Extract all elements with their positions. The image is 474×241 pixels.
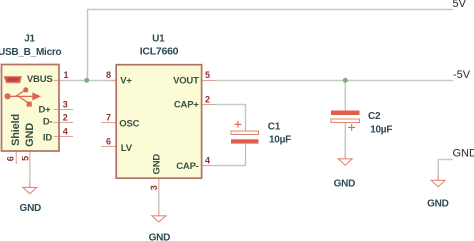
- svg-text:LV: LV: [121, 143, 133, 154]
- svg-text:4: 4: [205, 156, 210, 166]
- svg-text:V+: V+: [120, 75, 132, 86]
- svg-text:VBUS: VBUS: [27, 74, 53, 85]
- svg-text:ID: ID: [43, 133, 52, 144]
- svg-text:10µF: 10µF: [269, 135, 291, 146]
- svg-text:J1: J1: [24, 34, 35, 45]
- svg-text:2: 2: [205, 95, 210, 105]
- svg-text:Shield: Shield: [10, 114, 22, 146]
- svg-text:D+: D+: [38, 104, 51, 115]
- svg-text:D-: D-: [43, 116, 53, 127]
- svg-text:10µF: 10µF: [370, 125, 392, 136]
- svg-text:GND: GND: [24, 123, 36, 147]
- svg-text:CAP+: CAP+: [174, 100, 199, 111]
- svg-text:GND: GND: [427, 198, 449, 209]
- svg-text:2: 2: [63, 113, 68, 123]
- svg-text:ICL7660: ICL7660: [140, 46, 179, 58]
- svg-text:C2: C2: [368, 111, 381, 122]
- svg-text:GND: GND: [334, 178, 356, 189]
- svg-text:C1: C1: [268, 121, 281, 132]
- svg-text:5: 5: [20, 156, 30, 161]
- svg-text:USB_B_Micro: USB_B_Micro: [0, 47, 62, 58]
- svg-text:3: 3: [63, 100, 68, 110]
- svg-text:6: 6: [106, 137, 111, 147]
- svg-text:3: 3: [149, 185, 159, 190]
- svg-text:8: 8: [106, 70, 111, 80]
- svg-text:6: 6: [5, 156, 15, 161]
- svg-text:OSC: OSC: [119, 118, 139, 129]
- svg-text:U1: U1: [152, 34, 165, 45]
- svg-text:5: 5: [205, 70, 210, 80]
- svg-text:GND: GND: [20, 203, 42, 214]
- svg-text:CAP-: CAP-: [176, 161, 198, 172]
- svg-text:GND: GND: [149, 233, 171, 241]
- svg-text:GND: GND: [152, 154, 163, 175]
- svg-text:GND: GND: [453, 148, 474, 160]
- svg-text:4: 4: [63, 127, 68, 137]
- svg-text:-5V: -5V: [453, 69, 471, 81]
- svg-text:1: 1: [63, 70, 68, 80]
- svg-text:VOUT: VOUT: [173, 76, 199, 87]
- svg-text:5V: 5V: [453, 0, 467, 10]
- svg-text:7: 7: [106, 113, 111, 123]
